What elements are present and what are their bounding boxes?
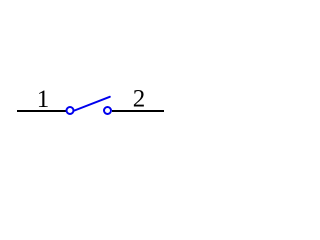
wire (left lead to pin 1) [17, 110, 66, 112]
switch S1 contact circle (pin 1) [67, 107, 74, 114]
svg-text:2: 2 [133, 86, 146, 113]
wire (right lead from pin 2) [112, 110, 164, 112]
svg-text:1: 1 [37, 86, 50, 113]
switch S1 lever (open position) [75, 97, 110, 111]
switch S1 contact circle (pin 2) [104, 107, 111, 114]
